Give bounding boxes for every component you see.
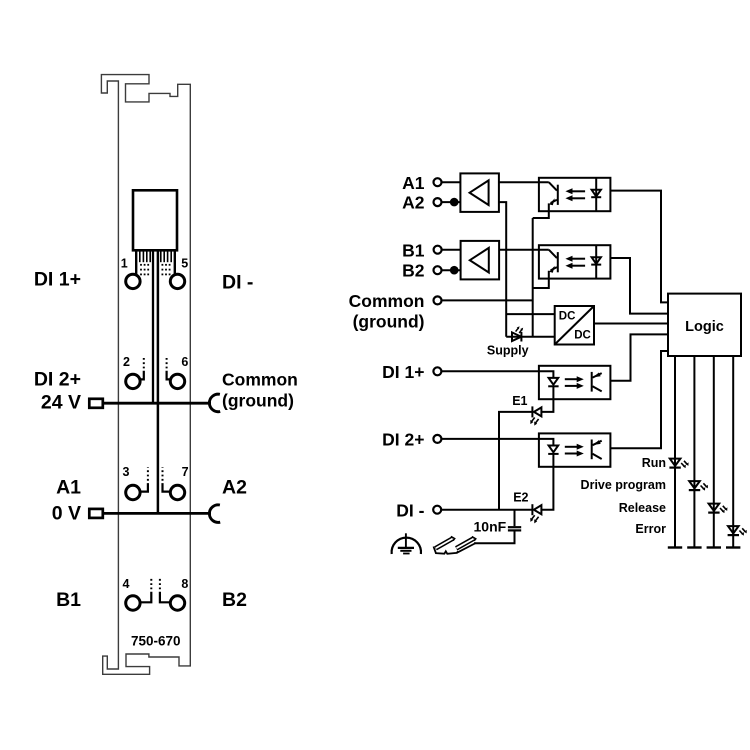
wire DI - to E2 xyxy=(441,509,532,511)
terminal 3 xyxy=(126,485,140,499)
svg-text:A2: A2 xyxy=(222,477,247,499)
svg-text:DI -: DI - xyxy=(222,272,253,294)
connector dotted pins right xyxy=(162,264,171,275)
terminal 4 xyxy=(126,596,140,610)
wire A1 to amplifier U1 xyxy=(442,181,461,183)
wire Common to supply rail xyxy=(442,299,533,301)
supply LED xyxy=(512,332,521,342)
terminal B2 xyxy=(434,266,442,274)
capacitor 10nF xyxy=(474,510,521,544)
LED Release xyxy=(708,504,719,513)
wire A2 to amplifier U1 xyxy=(442,201,461,203)
svg-text:DC: DC xyxy=(559,311,576,323)
optocoupler OC2 xyxy=(533,245,611,288)
terminal A1 xyxy=(434,178,442,186)
terminal 1 xyxy=(126,274,140,288)
terminal 6 contact stub xyxy=(167,356,171,380)
earth ground symbol xyxy=(392,533,421,554)
junction dot B2 xyxy=(450,266,459,275)
svg-text:Run: Run xyxy=(642,456,666,470)
diode E2 arrows xyxy=(530,515,538,523)
diode E2 xyxy=(532,504,541,515)
terminal 4 contact stub xyxy=(140,578,151,603)
terminal 5 xyxy=(170,274,184,288)
amplifier U2 xyxy=(461,241,500,280)
svg-text:DI 1+: DI 1+ xyxy=(34,269,81,291)
terminal 3 contact stub xyxy=(140,467,148,492)
24V wire xyxy=(103,402,211,405)
wire E2 to optocoupler OC4 LED xyxy=(541,467,553,510)
wire E1 to DI- rail xyxy=(499,412,532,510)
wire optocoupler OC1 to logic xyxy=(610,191,668,303)
svg-text:DI 2+: DI 2+ xyxy=(34,368,81,390)
wire DI 2+ to optocoupler OC4 xyxy=(441,439,553,446)
optocoupler OC4 xyxy=(539,433,611,466)
svg-text:Logic: Logic xyxy=(685,319,724,335)
LED Run arrows xyxy=(681,461,688,468)
svg-text:A2: A2 xyxy=(402,193,425,213)
svg-text:DI -: DI - xyxy=(396,500,424,520)
wire optocoupler OC1 emitter to supply rail xyxy=(532,218,534,337)
optocoupler OC3 xyxy=(539,366,611,399)
optocoupler OC3 arrowheads xyxy=(577,373,601,389)
svg-text:7: 7 xyxy=(182,465,189,479)
diode E1 arrows xyxy=(530,418,538,426)
diode E1 xyxy=(532,406,541,417)
svg-text:0 V: 0 V xyxy=(52,503,81,525)
svg-text:B1: B1 xyxy=(402,241,425,261)
wire optocoupler OC4 to logic xyxy=(610,351,668,448)
svg-text:A1: A1 xyxy=(402,173,425,193)
wire DC/DC to logic xyxy=(594,323,668,325)
DC/DC converter xyxy=(555,306,594,345)
terminal 8 xyxy=(170,596,184,610)
terminal 7 xyxy=(170,485,184,499)
svg-text:DI 1+: DI 1+ xyxy=(382,362,424,382)
wire optocoupler OC3 to logic xyxy=(610,334,668,380)
svg-text:B1: B1 xyxy=(56,589,81,611)
terminal DI 2+ xyxy=(433,435,441,443)
svg-text:E1: E1 xyxy=(512,394,527,408)
wire supply LED line xyxy=(506,336,555,338)
svg-text:B2: B2 xyxy=(222,589,247,611)
svg-text:A1: A1 xyxy=(56,477,81,499)
wire optocoupler OC2 to logic xyxy=(610,258,668,314)
terminal 8 contact stub xyxy=(160,578,170,603)
24V feed square xyxy=(89,399,103,408)
junction dot A2 xyxy=(450,198,459,207)
svg-text:B2: B2 xyxy=(402,261,425,281)
svg-text:(ground): (ground) xyxy=(222,391,294,411)
wire center bundle right line xyxy=(157,250,160,513)
terminal A2 xyxy=(434,198,442,206)
0V wire xyxy=(103,512,211,515)
wire amplifier U2 out to optocoupler OC2 xyxy=(499,249,549,251)
LED Release arrows xyxy=(720,506,727,513)
connector pin comb right xyxy=(161,250,175,274)
svg-text:Common: Common xyxy=(222,369,298,389)
svg-text:5: 5 xyxy=(181,256,188,270)
svg-text:750-670: 750-670 xyxy=(131,633,181,648)
optocoupler OC2 arrowheads xyxy=(549,256,572,273)
terminal B1 xyxy=(434,246,442,254)
svg-text:8: 8 xyxy=(181,577,188,591)
wire supply to DC/DC top xyxy=(506,313,555,315)
0V feed square xyxy=(89,509,103,518)
24V clamp contact xyxy=(209,394,220,412)
connector dotted pins left xyxy=(140,264,149,275)
svg-text:24 V: 24 V xyxy=(41,391,81,413)
svg-text:3: 3 xyxy=(122,465,129,479)
svg-text:Drive program: Drive program xyxy=(581,478,666,492)
logic box xyxy=(668,294,741,356)
svg-text:10nF: 10nF xyxy=(474,518,507,534)
connector block xyxy=(133,190,177,250)
terminal DI 1+ xyxy=(433,367,441,375)
LED Error arrows xyxy=(739,528,746,535)
svg-text:2: 2 xyxy=(123,355,130,369)
svg-text:Common: Common xyxy=(349,291,425,311)
svg-text:Supply: Supply xyxy=(487,343,529,357)
svg-text:DC: DC xyxy=(574,330,591,342)
LED line Drive program xyxy=(687,356,701,548)
0V clamp contact xyxy=(209,505,220,523)
terminal 6 xyxy=(170,374,184,388)
svg-text:4: 4 xyxy=(122,577,129,591)
terminal 7 contact stub xyxy=(163,467,171,492)
wire center bundle left line xyxy=(152,250,154,403)
LED line Error xyxy=(726,356,740,548)
LED Drive program arrows xyxy=(701,483,708,490)
connector pin comb left xyxy=(136,250,150,274)
svg-text:6: 6 xyxy=(181,355,188,369)
optocoupler OC1 xyxy=(533,178,611,218)
svg-text:E2: E2 xyxy=(513,491,528,505)
LED line Release xyxy=(707,356,721,548)
svg-text:Release: Release xyxy=(619,501,666,515)
wire A2 rail to supply xyxy=(499,202,506,337)
amplifier U1 xyxy=(460,173,499,212)
wire amplifier U1 out to optocoupler OC1 xyxy=(499,181,549,183)
optocoupler OC1 arrowheads xyxy=(549,188,572,205)
terminal 2 contact stub xyxy=(140,356,144,380)
terminal DI - xyxy=(433,506,441,514)
terminal Common xyxy=(434,296,442,304)
svg-text:1: 1 xyxy=(121,256,128,270)
LED line Run xyxy=(668,356,682,548)
LED Drive program xyxy=(689,481,700,490)
wire OC3 LED to E1 xyxy=(541,399,553,412)
DIN rail symbol xyxy=(434,536,476,553)
svg-text:DI 2+: DI 2+ xyxy=(382,430,424,450)
svg-text:Error: Error xyxy=(635,522,666,536)
svg-text:(ground): (ground) xyxy=(353,312,425,332)
wire DI 1+ to optocoupler OC3 xyxy=(441,371,553,378)
wire B1 to amplifier U2 xyxy=(442,249,461,251)
supply LED arrows xyxy=(516,326,524,333)
optocoupler OC4 arrowheads xyxy=(577,440,601,456)
module body outline xyxy=(101,75,190,675)
LED Error xyxy=(728,526,739,535)
wire B2 to amplifier U2 xyxy=(442,269,461,271)
terminal 2 xyxy=(126,374,140,388)
LED Run xyxy=(669,459,680,468)
